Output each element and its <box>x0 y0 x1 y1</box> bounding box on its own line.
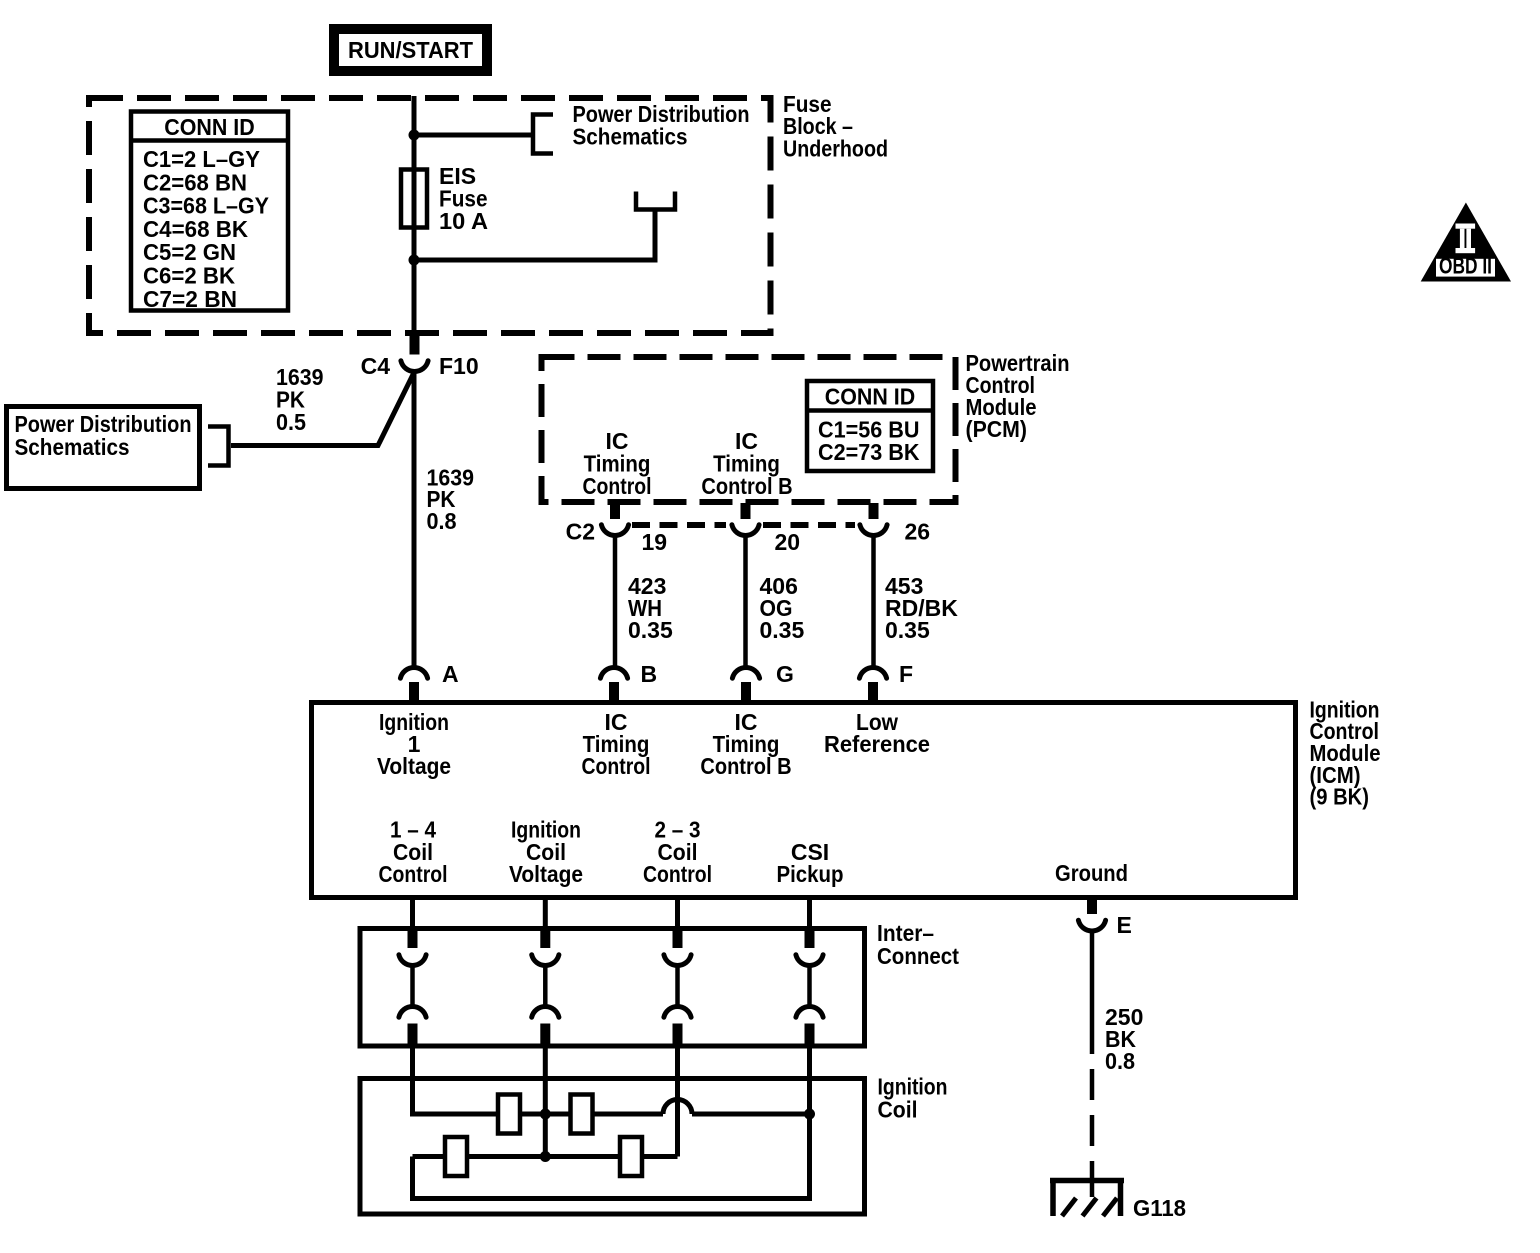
node junction to power distribution <box>409 130 420 141</box>
node coil voltage / lower rail <box>540 1151 551 1162</box>
svg-text:Control B: Control B <box>700 753 791 779</box>
svg-text:G118: G118 <box>1133 1195 1186 1221</box>
wire 453 RD/BK 0.35 <box>871 535 876 667</box>
wire RUN/START feed (vertical) <box>412 96 417 337</box>
svg-text:C2=73 BK: C2=73 BK <box>818 439 920 465</box>
ICM pin A connector <box>400 668 427 701</box>
wire interconnect to coil 1 <box>410 1046 415 1117</box>
svg-text:C6=2 BK: C6=2 BK <box>143 263 235 289</box>
svg-text:Reference: Reference <box>824 731 930 757</box>
svg-text:Underhood: Underhood <box>783 135 888 161</box>
off-page reference (fuse block output, opening up) <box>636 192 675 210</box>
svg-text:F: F <box>899 661 913 687</box>
label Fuse Block - Underhood <box>783 91 888 161</box>
label IC Timing Control B (PCM pin 20) <box>701 428 792 499</box>
label 250 BK 0.8 <box>1105 1004 1143 1074</box>
ICM box (ignition control module) <box>312 703 1296 898</box>
svg-text:C3=68 L–GY: C3=68 L–GY <box>143 193 269 219</box>
connector table CONN ID (fuse block) <box>131 112 288 312</box>
svg-text:0.8: 0.8 <box>1105 1048 1135 1074</box>
label Powertrain Control Module (PCM) <box>966 350 1070 442</box>
svg-text:CONN ID: CONN ID <box>164 114 255 140</box>
wire ignition coil voltage <box>543 897 548 931</box>
label IC Timing Control B (pin G) <box>700 709 791 779</box>
ICM pin G connector <box>732 668 759 701</box>
wire 406 OG 0.35 <box>743 535 748 667</box>
ground G118 <box>1050 1178 1124 1216</box>
svg-text:Connect: Connect <box>877 943 959 969</box>
node CSI / upper rail <box>804 1109 815 1120</box>
node below fuse <box>409 255 420 266</box>
wire to power distribution off-page <box>412 133 532 138</box>
box power distribution schematics <box>7 407 200 489</box>
coil return: right vertical and bottom rail <box>413 1114 810 1199</box>
svg-text:10 A: 10 A <box>439 208 488 234</box>
winding 1-4 primary <box>498 1095 520 1134</box>
label Ignition 1 Voltage (pin A) <box>377 709 451 779</box>
svg-text:C2: C2 <box>566 519 595 545</box>
svg-text:0.35: 0.35 <box>760 617 805 643</box>
label IC Timing Control (pin B) <box>582 709 651 779</box>
svg-text:Pickup: Pickup <box>777 861 844 887</box>
wire fuse output branch <box>412 258 656 263</box>
svg-text:Control: Control <box>643 861 712 887</box>
svg-text:Coil: Coil <box>878 1097 918 1123</box>
svg-text:Ground: Ground <box>1055 860 1128 886</box>
wire interconnect to coil 4 <box>807 1046 812 1117</box>
connector C2 dashed link line <box>632 522 726 528</box>
svg-text:Control B: Control B <box>701 473 792 499</box>
winding 1-4 secondary <box>571 1095 593 1134</box>
connector table CONN ID (PCM) <box>807 381 933 471</box>
coil primary wiring: upper rail <box>413 1112 664 1117</box>
interconnect connector pair 1 <box>399 930 426 1045</box>
svg-text:C7=2 BN: C7=2 BN <box>143 286 237 312</box>
svg-text:Schematics: Schematics <box>573 123 688 149</box>
svg-text:(PCM): (PCM) <box>966 416 1028 442</box>
off-page reference: power distribution schematics (top) <box>533 101 750 154</box>
svg-text:0.35: 0.35 <box>628 617 673 643</box>
ICM pin F connector <box>859 668 886 701</box>
OBD II symbol <box>1421 203 1511 282</box>
wire 1639 PK 0.8 (ignition 1 voltage) <box>412 372 417 668</box>
winding 2-3 primary <box>445 1137 467 1176</box>
wire 1-4 coil control (ICM to interconnect) <box>410 897 415 931</box>
ignition coil box <box>360 1079 865 1215</box>
PCM pin 26 connector (C2) <box>860 503 887 535</box>
coil lower rail <box>413 1154 678 1159</box>
label 1-4 Coil Control <box>379 817 448 888</box>
switch RUN/START feed box <box>334 29 487 71</box>
svg-text:20: 20 <box>775 529 801 555</box>
svg-text:G: G <box>776 661 794 687</box>
wire 250 BK 0.8 (solid part) <box>1090 930 1095 1054</box>
wire hop over 2-3 primary <box>663 1100 692 1115</box>
wire 1639 PK 0.5 (to power distribution schematics) <box>231 372 415 446</box>
label 2-3 Coil Control <box>643 817 712 888</box>
label Ignition Control Module (ICM) (9 BK) <box>1310 697 1381 810</box>
PCM pin 19 connector (C2) <box>601 503 628 535</box>
svg-text:OBD II: OBD II <box>1439 253 1492 279</box>
label Ignition Coil Voltage <box>509 817 583 888</box>
PCM dashed box <box>542 357 956 502</box>
svg-text:C1=2 L–GY: C1=2 L–GY <box>143 146 260 172</box>
svg-text:19: 19 <box>642 529 668 555</box>
svg-text:Voltage: Voltage <box>509 861 583 887</box>
svg-text:RUN/START: RUN/START <box>348 37 473 63</box>
svg-text:Voltage: Voltage <box>377 753 451 779</box>
wire 2-3 coil control <box>675 897 680 931</box>
wire 250 BK 0.8 (dashed part) <box>1090 1069 1095 1178</box>
svg-text:B: B <box>641 661 658 687</box>
svg-text:E: E <box>1117 912 1132 938</box>
winding 2-3 secondary <box>620 1137 642 1176</box>
svg-text:F10: F10 <box>439 353 479 379</box>
svg-text:Control: Control <box>582 753 651 779</box>
svg-text:C4=68 BK: C4=68 BK <box>143 216 248 242</box>
svg-text:C2=68 BN: C2=68 BN <box>143 169 247 195</box>
wire CSI pickup <box>807 897 812 931</box>
svg-text:0.8: 0.8 <box>427 508 457 534</box>
label Ignition Coil <box>878 1074 948 1123</box>
interconnect connector pair 2 <box>532 930 559 1045</box>
label IC Timing Control (PCM pin 19) <box>583 428 652 499</box>
label 1639 PK 0.5 <box>276 364 324 435</box>
label CSI Pickup <box>777 839 844 887</box>
wire 423 WH 0.35 <box>613 535 618 667</box>
svg-text:(9 BK): (9 BK) <box>1310 784 1370 810</box>
connector C4 / F10 <box>401 336 428 371</box>
node coil voltage / upper rail <box>540 1109 551 1120</box>
ICM pin E connector (ground) <box>1078 900 1105 931</box>
svg-text:C4: C4 <box>361 353 391 379</box>
off-page reference bracket (left) <box>208 427 229 466</box>
interconnect connector pair 4 <box>796 930 823 1045</box>
ICM pin B connector <box>600 668 627 701</box>
svg-text:Control: Control <box>379 861 448 887</box>
wire interconnect to coil 2 <box>543 1046 548 1157</box>
svg-text:0.35: 0.35 <box>885 617 930 643</box>
fuse EIS 10 A <box>401 163 488 234</box>
svg-text:26: 26 <box>905 519 931 545</box>
svg-text:Schematics: Schematics <box>15 434 130 460</box>
PCM pin 20 connector (C2) <box>732 503 759 535</box>
interconnect box <box>360 929 865 1047</box>
wire interconnect to coil 3 <box>675 1046 680 1157</box>
label Low Reference (pin F) <box>824 709 930 757</box>
svg-text:C5=2 GN: C5=2 GN <box>143 239 236 265</box>
svg-text:Control: Control <box>583 473 652 499</box>
svg-text:0.5: 0.5 <box>276 409 306 435</box>
interconnect connector pair 3 <box>664 930 691 1045</box>
label Inter-Connect <box>877 920 959 969</box>
svg-text:CONN ID: CONN ID <box>825 384 916 410</box>
svg-text:A: A <box>442 661 459 687</box>
fuse block underhood dashed box <box>89 98 771 333</box>
label 1639 PK 0.8 <box>427 465 475 535</box>
